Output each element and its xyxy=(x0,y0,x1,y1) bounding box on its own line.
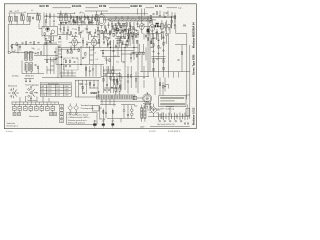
lower row fills xyxy=(14,113,56,115)
resistor Rx4 xyxy=(105,26,106,29)
node circle antenna xyxy=(8,51,10,53)
svg-text:220: 220 xyxy=(123,26,126,28)
resistor R5 xyxy=(81,19,82,22)
resistor R35 xyxy=(38,66,39,69)
resistor R33 xyxy=(45,42,46,45)
resistor R61 xyxy=(78,27,79,30)
wire x150 vertical xyxy=(149,34,151,72)
svg-text:EF 89: EF 89 xyxy=(99,4,107,8)
resistor Ry3 xyxy=(139,52,140,55)
notes box bar 3 xyxy=(160,103,185,105)
wire x182 xyxy=(181,45,183,72)
wire dial run leads xyxy=(103,19,156,21)
notes box frame xyxy=(159,96,186,107)
contact circle c xyxy=(82,57,84,59)
bar2 hatch xyxy=(144,109,146,117)
capacitor Cx6 xyxy=(90,20,92,24)
wire osc links xyxy=(122,30,129,48)
svg-text:Netz: Netz xyxy=(134,105,138,108)
ferrite loop inner xyxy=(99,16,104,24)
contact circle e xyxy=(80,83,82,85)
wire EL84 rail links xyxy=(147,16,150,30)
terminal inner marks xyxy=(13,107,53,109)
FM box below parts: capacitor C92 xyxy=(45,37,47,40)
capacitor Cx8 xyxy=(105,27,107,31)
svg-text:50: 50 xyxy=(82,12,84,14)
small box near TA text xyxy=(93,106,100,112)
wire y44.5 right xyxy=(175,44,187,46)
svg-text:ECH 81: ECH 81 xyxy=(72,4,82,8)
IF transformer S1 (between FM box and ECH81) xyxy=(60,15,63,21)
tube V3 EF89 envelope xyxy=(91,39,97,46)
wire sparse verticals xyxy=(86,65,101,77)
junction dots extra xyxy=(102,50,103,51)
wire top comb over dial run xyxy=(104,16,145,20)
wire horiz y56.5 xyxy=(102,56,120,58)
wire HT bus y17.5 xyxy=(57,17,148,19)
capacitor C82 xyxy=(130,54,132,63)
capacitor C31 xyxy=(30,41,32,44)
wire antenna feed left xyxy=(8,25,9,53)
svg-text:In 3 Stellung: B u Sound: In 3 Stellung: B u Sound xyxy=(68,114,88,117)
capacitor C83 xyxy=(54,51,56,54)
resistor R67 xyxy=(150,106,151,109)
wire pair x89.5 x93.5 xyxy=(90,46,94,64)
resistor R14 above V2 xyxy=(70,32,71,35)
capacitor Cy6 xyxy=(132,35,134,38)
resistor R37 xyxy=(69,60,70,63)
wire r60 stubs xyxy=(63,25,65,35)
svg-text:10: 10 xyxy=(69,35,71,37)
wire mesh lower-center add xyxy=(104,84,121,93)
wire rung y22.5 segs xyxy=(60,22,94,24)
resistor R54 xyxy=(163,67,164,70)
wire comb v20 xyxy=(143,44,145,52)
wire rail extension right xyxy=(148,16,176,17)
wire V2 side taps xyxy=(69,41,81,43)
resistor Rx2 xyxy=(77,17,78,20)
terminal box 7 xyxy=(46,106,50,110)
tube V4 EABC80 envelope xyxy=(140,24,145,30)
resistor R2 above FM box xyxy=(45,20,46,23)
svg-text:12k: 12k xyxy=(69,52,72,54)
bank D hatch xyxy=(30,64,31,70)
wire ground bus left xyxy=(42,77,101,79)
svg-text:ECC 85: ECC 85 xyxy=(40,4,50,8)
converter: junction dots xyxy=(117,30,118,31)
wire comb v17 xyxy=(127,44,129,47)
svg-text:30: 30 xyxy=(112,70,114,72)
capacitor C54 xyxy=(123,61,125,64)
resistor Rx11 xyxy=(151,41,152,44)
top right extra: capacitor C98 xyxy=(153,13,155,16)
switch bar segmented xyxy=(12,102,59,105)
wire L5 stubs xyxy=(21,13,23,24)
svg-text:12k: 12k xyxy=(82,31,85,33)
V3 electrodes xyxy=(92,40,96,47)
speaker jack cluster xyxy=(168,25,171,31)
wire V3 anode xyxy=(93,37,95,51)
right col lower verticals xyxy=(155,78,165,96)
svg-text:25: 25 xyxy=(101,33,103,35)
capacitor Cx11 xyxy=(118,21,120,25)
wire horiz y52 xyxy=(131,51,145,53)
capacitor Cx7 xyxy=(94,16,96,20)
capacitor C63 xyxy=(117,42,119,45)
svg-text:Tastenaggregat: Tastenaggregat xyxy=(25,84,39,87)
wire comb v21 xyxy=(151,38,153,44)
capacitor Cy8 xyxy=(161,31,163,34)
terminal stubs below xyxy=(14,110,53,112)
capacitor C43 xyxy=(106,84,108,87)
wire antenna lead xyxy=(10,52,34,54)
svg-text:50: 50 xyxy=(17,10,19,12)
svg-text:Klaviatur gezeichnet in: Klaviatur gezeichnet in xyxy=(68,119,87,122)
capacitor C13 xyxy=(137,21,139,27)
wire comb v22 xyxy=(156,34,158,40)
resistor R91 xyxy=(150,20,151,23)
dial scale assembly box 1 xyxy=(97,95,112,99)
capacitor Cx4 xyxy=(82,20,84,24)
capacitor Cx10 xyxy=(114,27,116,31)
switch bar feeders from above xyxy=(20,96,49,102)
notes box bar 1 xyxy=(160,97,184,99)
FM box lower junction dot xyxy=(49,41,51,43)
EL84 dark grid blob xyxy=(147,29,149,31)
wire FM box feed xyxy=(39,24,44,29)
svg-text:Mediator MD5380A 64: Mediator MD5380A 64 xyxy=(193,22,196,48)
resistor R81 xyxy=(159,83,160,86)
mid-left chain: contact circle xyxy=(92,69,94,71)
converter extra caps xyxy=(109,32,137,38)
resistor Ry2 xyxy=(115,28,116,31)
resistor R46 xyxy=(82,86,83,89)
wire comb v16 xyxy=(123,33,125,38)
T1 core xyxy=(161,24,162,28)
capacitor C5 xyxy=(65,23,67,24)
schematic paper tint xyxy=(4,4,196,129)
svg-text:500: 500 xyxy=(74,29,77,31)
resistor R6 xyxy=(84,16,85,19)
box lead xyxy=(99,106,102,120)
above-dial component row: resistor pair xyxy=(115,88,117,91)
capacitor C20 xyxy=(137,32,139,38)
mixer cluster small rects xyxy=(101,30,103,33)
wire L9 stubs xyxy=(37,12,39,23)
resistor R60 xyxy=(63,28,64,31)
tone cap C25 xyxy=(153,37,155,40)
converter: coil L70 xyxy=(131,33,132,36)
small box left of EM84 xyxy=(133,96,136,100)
wire right feeders xyxy=(172,16,176,28)
wire comb v24 xyxy=(166,36,168,44)
wire r10 stubs xyxy=(111,21,113,29)
V2 electrodes xyxy=(73,40,77,47)
capacitor C3 above FM box xyxy=(53,20,55,23)
capacitor Cx2 xyxy=(74,20,76,24)
resistor R80 xyxy=(136,54,137,57)
output transformer T1 xyxy=(161,24,164,29)
wire below FM box xyxy=(44,42,57,44)
table cell text rows xyxy=(41,86,69,96)
mains plug circles xyxy=(184,123,186,125)
pot blob 2 (middle) xyxy=(102,124,105,126)
center-low parts: contact circle xyxy=(108,71,110,73)
capacitor C50 xyxy=(159,15,161,18)
left bus small parts: capacitor C93 xyxy=(11,45,13,48)
wire bottom bus y126 right xyxy=(150,125,190,127)
capacitor C36 xyxy=(74,61,76,64)
wire EM84 circle leads xyxy=(137,93,148,109)
svg-text:Skalenseil: Skalenseil xyxy=(8,86,18,88)
contact circle d xyxy=(109,31,111,33)
bridge inner mark xyxy=(152,109,154,112)
terminal box 1 xyxy=(13,106,17,110)
tube V1 ECC85 triode b xyxy=(51,30,54,34)
wire comb v6 xyxy=(84,22,86,25)
svg-text:12k: 12k xyxy=(116,61,119,63)
resistor Rx10 xyxy=(148,38,149,41)
wire osc verticals add xyxy=(104,30,149,50)
x131 chain wires xyxy=(130,66,132,88)
wire horiz y47 right xyxy=(100,46,138,48)
transformer top leads xyxy=(142,105,145,122)
svg-text:30: 30 xyxy=(182,115,184,117)
capacitor C87 xyxy=(178,59,180,62)
resistor R32 xyxy=(34,42,35,45)
resistor R25 xyxy=(153,43,154,46)
wire mesh below xyxy=(60,65,76,77)
center-low parts: rect component xyxy=(112,70,114,73)
svg-text:Netzteil 220V~ Sicherung: Netzteil 220V~ Sicherung xyxy=(153,108,174,111)
svg-text:3n: 3n xyxy=(74,12,76,14)
svg-text:0,1: 0,1 xyxy=(176,116,178,118)
switch bank C (lower) xyxy=(25,63,28,71)
terminal stubs xyxy=(14,105,53,107)
capacitor Cx13 xyxy=(130,24,132,28)
capacitor Cx1 xyxy=(68,19,70,23)
tube V1 ECC85 triode a xyxy=(46,27,50,31)
wire left bus y44.5 xyxy=(12,44,58,46)
converter extra box 2 xyxy=(129,29,131,31)
svg-text:0,1: 0,1 xyxy=(31,10,33,12)
wire V4 leads xyxy=(137,21,147,34)
pickup diamond 2 xyxy=(74,105,78,110)
capacitor C95 xyxy=(163,31,165,34)
ground bus y101 right xyxy=(100,100,149,102)
wire bottom links xyxy=(107,118,135,122)
resistor R42 xyxy=(136,40,137,43)
wire top rail after EABC80 xyxy=(146,7,155,9)
svg-text:50: 50 xyxy=(62,33,64,35)
wire grid line y25 ext xyxy=(58,25,100,35)
right top parts: wires xyxy=(172,16,175,29)
V1 dark cathode blob xyxy=(47,28,49,30)
resistor above notes box xyxy=(162,85,163,88)
V1 internal electrodes xyxy=(47,29,49,32)
wire lamp leads xyxy=(131,106,133,119)
svg-text:10: 10 xyxy=(114,56,116,58)
EL84 cathode parts xyxy=(148,32,150,36)
note box with border xyxy=(67,113,98,124)
capacitor Cy4 xyxy=(103,30,105,33)
wire y59.5 left xyxy=(44,59,56,61)
wire V5 top leads xyxy=(152,20,162,35)
resistor Rx6 xyxy=(121,25,122,28)
svg-text:9.512 4023 S: 9.512 4023 S xyxy=(168,131,181,133)
wire x166.5 xyxy=(166,20,168,33)
resistor R55 xyxy=(110,76,111,79)
svg-text:EM84: EM84 xyxy=(91,91,98,95)
wire comb v15 xyxy=(119,43,121,48)
top right extra: capacitor C99 xyxy=(166,12,168,15)
pot blob 3 (treble) xyxy=(111,123,114,125)
center-low cluster 2: resistor xyxy=(114,79,115,82)
dial cable shielded run xyxy=(109,19,152,21)
right column rail x168.5 xyxy=(168,33,170,59)
wire lower switch links xyxy=(22,61,44,74)
converter: resistor R72 xyxy=(119,40,120,43)
bank C hatch xyxy=(26,64,27,70)
EL84 screen marks xyxy=(156,23,159,25)
capacitor Cy1 xyxy=(66,32,68,35)
antenna coil L10 xyxy=(39,15,40,20)
wire top rail after ECH81 xyxy=(86,7,99,9)
resistor R44 xyxy=(116,79,117,82)
terminal box 2 xyxy=(18,106,22,110)
resistor R28 xyxy=(153,60,154,63)
svg-text:2n: 2n xyxy=(142,33,144,35)
svg-text:25: 25 xyxy=(72,29,74,31)
wire r62 stubs xyxy=(97,25,99,35)
wire mid bus y47.5 left xyxy=(58,46,100,48)
wire x125 upper xyxy=(124,48,126,67)
svg-text:50: 50 xyxy=(84,57,86,59)
EM84 front view outer circle xyxy=(143,94,152,103)
wire switch bus xyxy=(34,45,58,56)
wire x142 x146 xyxy=(142,47,146,71)
wire x56 vertical xyxy=(55,47,57,64)
converter extra box 3 xyxy=(124,23,126,25)
dial scale ticks xyxy=(98,95,133,99)
V5 electrodes xyxy=(150,25,154,31)
resistor R34 xyxy=(41,52,42,55)
svg-text:10: 10 xyxy=(103,71,105,73)
resistor Ry4 xyxy=(143,52,144,55)
resistor Rx7 xyxy=(125,36,126,39)
wire y73.5 center xyxy=(103,73,121,75)
right column rail x163.5 xyxy=(163,33,165,63)
wire V3 side taps xyxy=(88,41,100,43)
EM84 circuit mesh xyxy=(75,80,99,97)
terminal box 5 xyxy=(35,106,39,110)
svg-text:4n7: 4n7 xyxy=(85,84,88,86)
EM84 sub-circuit verticals xyxy=(76,80,87,97)
resistor R7 xyxy=(92,18,93,21)
V3 grid cluster xyxy=(91,35,97,37)
capacitor Cx20 xyxy=(125,43,127,47)
svg-text:5k: 5k xyxy=(72,58,74,60)
svg-text:Tastensatz: Tastensatz xyxy=(27,99,37,102)
capacitor C17 xyxy=(86,41,88,48)
switch bank A (Tastensatz upper) xyxy=(25,52,28,60)
resistor R43 xyxy=(103,78,104,81)
wire left small cluster xyxy=(12,45,18,54)
rungs x96.6-99.8 xyxy=(97,31,100,44)
switch bank D xyxy=(30,63,33,71)
capacitor C51 xyxy=(164,16,166,19)
wire EL84 col down xyxy=(147,33,162,44)
capacitor C41 xyxy=(109,37,111,40)
ladder rungs x58-61.5 xyxy=(58,39,62,57)
junction dot EM xyxy=(83,92,85,94)
S3 core lines xyxy=(96,16,97,20)
svg-text:Netzschalter: Netzschalter xyxy=(29,115,39,118)
V4 electrodes xyxy=(141,26,144,30)
capacitor Cx19 xyxy=(121,41,123,45)
wire upper links xyxy=(58,49,80,52)
capacitor C42 xyxy=(133,52,135,55)
cap bank rail xyxy=(148,116,190,118)
cap bank circles xyxy=(159,120,161,122)
wire right stubs xyxy=(174,13,176,23)
wire pair down from switch xyxy=(51,57,55,74)
wire HT feed right xyxy=(186,34,188,100)
resistor R11 xyxy=(122,23,123,26)
small boxes lower row xyxy=(13,112,16,115)
resistor R63 xyxy=(46,60,47,63)
lamp circle 1 xyxy=(131,109,134,112)
capacitor Cx9 xyxy=(109,32,111,36)
capacitor C55 xyxy=(11,46,13,49)
svg-text:Schema: Schema xyxy=(6,131,13,133)
wire rail y13.8 center xyxy=(57,13,148,15)
wire IF cluster verticals xyxy=(61,11,74,25)
resistor R38 xyxy=(67,51,68,54)
diamond leads xyxy=(70,103,76,112)
svg-text:8p: 8p xyxy=(160,48,162,50)
wire pot leads xyxy=(128,31,130,42)
svg-text:Drehko: Drehko xyxy=(12,75,20,78)
svg-text:Tonabnehmer: Tonabnehmer xyxy=(81,105,94,107)
center-low cluster 2: capacitor xyxy=(117,81,119,84)
svg-text:12k: 12k xyxy=(142,24,145,26)
wire comb v23 xyxy=(161,34,163,40)
capacitor C90 xyxy=(119,85,121,88)
wire comb v11 xyxy=(103,33,105,38)
jack circles xyxy=(69,113,71,115)
wire L3 stubs xyxy=(15,14,17,25)
resistor R31 xyxy=(26,42,27,45)
wire comb v10 xyxy=(98,20,100,24)
coil L13 xyxy=(129,23,130,26)
wire comb v13 xyxy=(111,29,113,33)
wire horiz y33 xyxy=(100,32,115,34)
resistor R93 xyxy=(98,39,99,42)
table header fill xyxy=(40,82,71,85)
bar1 hatch xyxy=(141,109,143,117)
wire r7 stubs xyxy=(91,15,93,25)
wire FM drop links xyxy=(45,41,54,75)
resistor R17 xyxy=(78,49,79,52)
svg-text:5k: 5k xyxy=(119,81,121,83)
resistor R27 xyxy=(163,42,164,45)
small marks right of EM84 xyxy=(98,91,100,94)
detector diode cluster left of V4 xyxy=(136,30,139,34)
antenna coil L5 xyxy=(21,16,22,21)
antenna coil L7 xyxy=(27,17,28,22)
wire top rail after ECC85 xyxy=(53,7,72,9)
